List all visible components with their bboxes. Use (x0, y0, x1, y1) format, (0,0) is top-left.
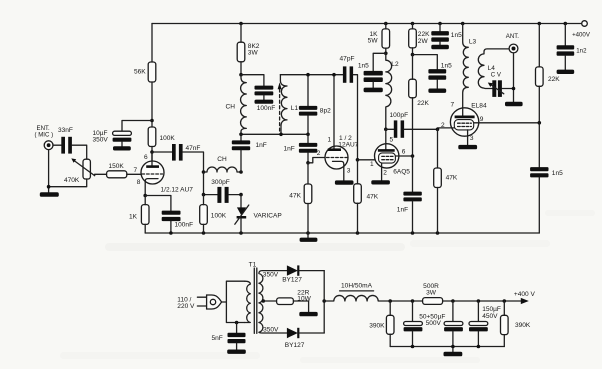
resistor 22K (screen dropper EL84) (536, 24, 561, 123)
resistor 500R 3W (423, 283, 505, 304)
node dots on ground rail (169, 231, 439, 235)
capacitor 100nF (cathode bypass) (162, 211, 193, 233)
wire tank top (280, 74, 343, 76)
node (8K2 bottom / HT osc feed) (239, 73, 243, 77)
wire rectifier output (323, 271, 325, 333)
node (CH right) (239, 170, 243, 174)
capacitor 47nF (V1 plate coupling) (152, 144, 204, 172)
svg-text:3: 3 (347, 168, 351, 175)
resistor 22K (screen lower) (409, 55, 430, 156)
svg-text:3W: 3W (426, 289, 437, 296)
capacitor CV (variable, with arrow) (488, 72, 514, 97)
wire plug to primary (222, 281, 245, 322)
node dots on top rail (239, 22, 567, 26)
resistor 22K 2W (screen feed) (409, 24, 430, 55)
svg-text:10W: 10W (297, 296, 311, 303)
resistor 47K (6AQ5 grid leak) (354, 160, 379, 233)
transformer T1 secondary 2x350V (259, 271, 287, 334)
svg-text:L3: L3 (469, 38, 477, 45)
wire ground rail (main) (145, 232, 539, 234)
svg-text:100K: 100K (160, 135, 176, 142)
ground (main rail) (300, 233, 318, 242)
inductor 10H/50mA (324, 283, 422, 301)
node (V2 grid) (306, 161, 310, 165)
svg-text:220 V: 220 V (177, 303, 195, 310)
ground (EL84 cathode) (458, 145, 477, 149)
svg-text:1n5: 1n5 (552, 170, 563, 177)
svg-text:100K: 100K (211, 212, 227, 219)
svg-text:100nF: 100nF (257, 105, 276, 112)
terminal +400V (top right) (572, 21, 591, 39)
svg-text:6: 6 (402, 148, 406, 155)
inductor CH (vertical choke) (226, 75, 247, 135)
transformer T1 core (249, 262, 257, 334)
node (tank bottom / CH) (239, 133, 243, 137)
node (6AQ5 screen pin 6) (411, 154, 415, 158)
svg-text:9: 9 (480, 116, 484, 123)
jack ENT. (MIC) (35, 125, 54, 150)
resistor 47K (V2 grid leak) (289, 163, 312, 233)
node (300pF right) (239, 193, 243, 197)
ground (V2 cathode) (335, 180, 354, 184)
svg-text:350V: 350V (93, 136, 109, 143)
svg-text:10H/50mA: 10H/50mA (341, 283, 373, 290)
svg-text:1nF: 1nF (284, 145, 295, 152)
svg-text:100nF: 100nF (175, 222, 194, 229)
potentiometer 470K (64, 158, 95, 184)
wire tank bottom (241, 133, 308, 135)
resistor 100K (varicap bias) (200, 195, 227, 233)
capacitor 1nF (grid) (284, 134, 318, 163)
capacitor 1n2 (HT decoupling) (557, 24, 587, 70)
capacitor 50uF B (444, 301, 463, 352)
svg-text:100pF: 100pF (390, 112, 409, 119)
node (EL84 grid / 100pF) (436, 128, 440, 132)
wire pot bottom to jack ground (49, 150, 87, 193)
svg-text:6AQ5: 6AQ5 (393, 169, 410, 176)
wire ANT stem (513, 53, 515, 102)
ground (centre tap) (299, 312, 317, 316)
node (screen divider) (411, 53, 415, 57)
terminal ANT. (506, 33, 520, 53)
capacitor 300pF (204, 172, 242, 203)
node (V2 plate / 47pF) (332, 73, 336, 77)
node (plate / 47nF) (150, 150, 154, 154)
capacitor 1n5 (HT rail decoupling) (431, 24, 462, 45)
ground (under 10uF) (113, 146, 131, 150)
ground (ANT / CV) (505, 102, 523, 107)
node (secondary centre tap) (262, 299, 266, 303)
capacitor 1nF (screen bypass) (397, 156, 422, 233)
svg-text:22K: 22K (548, 76, 560, 83)
svg-text:350V: 350V (263, 271, 279, 278)
resistor 390K (bleeder right) (501, 301, 531, 347)
capacitor 100pF (386, 112, 438, 138)
svg-text:BY127: BY127 (282, 277, 302, 284)
node (CV / ANT) (512, 87, 516, 91)
ground (5nF) (227, 350, 246, 354)
svg-text:C V: C V (491, 72, 502, 79)
svg-text:33nF: 33nF (58, 127, 73, 134)
svg-text:L2: L2 (391, 61, 399, 68)
capacitor 1n5 (screen node decoupling) (413, 55, 453, 89)
wire left drop from rail (151, 24, 153, 63)
svg-text:+400 V: +400 V (514, 291, 536, 298)
svg-text:47K: 47K (367, 193, 379, 200)
svg-text:1: 1 (328, 137, 332, 144)
svg-text:1n5: 1n5 (451, 32, 462, 39)
node (8p2 bottom) (306, 133, 310, 137)
node (300pF left) (202, 193, 206, 197)
svg-text:( MIC ): ( MIC ) (35, 132, 54, 139)
svg-text:CH: CH (217, 156, 227, 163)
wire grid node to V2 (308, 158, 325, 163)
node dots PSU bottom (411, 345, 481, 349)
inductor L4 (antenna coupling) (478, 49, 509, 89)
svg-text:5nF: 5nF (212, 335, 223, 342)
diode BY127 (upper) (282, 265, 324, 283)
capacitor 50uF A (50+50uF 500V) (404, 301, 446, 347)
node (390K top) (503, 299, 507, 303)
wire EL84 screen pin 9 (474, 122, 539, 124)
svg-text:12AU7: 12AU7 (338, 142, 358, 149)
svg-text:47K: 47K (446, 174, 458, 181)
ground (screen 1n5) (428, 89, 446, 93)
svg-text:8p2: 8p2 (320, 107, 331, 114)
node (8p2 top) (306, 73, 310, 77)
svg-text:CH: CH (226, 103, 236, 110)
svg-text:470K: 470K (64, 177, 80, 184)
wire to 10uF (122, 121, 152, 132)
node (cap C top) (477, 299, 481, 303)
svg-text:8: 8 (137, 179, 141, 186)
pentode EL84 (441, 102, 487, 145)
svg-text:ANT.: ANT. (506, 33, 520, 40)
inductor L2 (386, 53, 399, 129)
node (cap B top) (451, 299, 455, 303)
node (pin 9 / 22K) (538, 121, 542, 125)
wire cathode node to 100nF (145, 196, 171, 211)
resistor 22R 10W (277, 289, 312, 312)
node (CH left) (202, 170, 206, 174)
resistor 1K (V1 cathode) (129, 196, 149, 234)
svg-text:1n2: 1n2 (576, 47, 587, 54)
svg-text:2W: 2W (418, 38, 429, 45)
svg-text:2: 2 (317, 150, 321, 157)
svg-text:47pF: 47pF (340, 56, 355, 63)
node (rectifier output) (322, 299, 326, 303)
wire to 6AQ5 pin 1 (358, 159, 377, 161)
capacitor 100nF (osc HT decoupling) (241, 75, 275, 112)
svg-text:390K: 390K (515, 322, 531, 329)
wire 56K to node (151, 82, 153, 127)
svg-text:2: 2 (383, 170, 387, 177)
resistor 390K (bleeder left) (369, 301, 394, 347)
svg-text:47nF: 47nF (186, 145, 201, 152)
node (cathode V1) (143, 194, 147, 198)
capacitor 10uF 350V (electrolytic) (93, 130, 132, 146)
inductor L1 (tuned, with arrow) (278, 75, 299, 135)
node (6AQ5 grid) (356, 158, 360, 162)
svg-text:3: 3 (470, 135, 474, 142)
svg-text:500V: 500V (426, 320, 442, 327)
svg-text:VARICAP: VARICAP (254, 212, 283, 219)
wire tap to 22R (263, 300, 276, 302)
capacitor 5nF (212, 323, 246, 350)
capacitor 1nF (varicap link) (232, 134, 267, 172)
resistor 100K (V1 plate load) (148, 127, 175, 147)
ground (1n2) (557, 70, 575, 74)
svg-text:1: 1 (370, 161, 374, 168)
diode VARICAP (235, 195, 283, 233)
resistor 56K (134, 62, 156, 82)
wire PSU bottom rail (390, 346, 504, 348)
triode V2 1/2 12AU7 (oscillator) (317, 75, 359, 181)
svg-text:5W: 5W (368, 37, 379, 44)
svg-text:5: 5 (390, 136, 394, 143)
svg-text:300pF: 300pF (211, 179, 230, 186)
svg-text:47K: 47K (289, 193, 301, 200)
capacitor 33nF (58, 127, 73, 154)
svg-text:1n5: 1n5 (358, 62, 369, 69)
node (cap A top) (411, 299, 415, 303)
svg-text:1n5: 1n5 (441, 63, 452, 70)
wire 150K to grid pin 7 (127, 173, 142, 175)
(scan background tint) (60, 210, 595, 363)
svg-text:1K: 1K (129, 213, 138, 220)
node (choke output) (388, 299, 392, 303)
node (L1 bottom) (279, 133, 283, 137)
resistor 1K 5W (368, 24, 390, 54)
resistor 8K2 3W (237, 24, 260, 75)
wire 100K to plate node (151, 147, 153, 166)
svg-text:+400V: +400V (572, 31, 591, 38)
wire +400V output arrow (504, 291, 535, 304)
resistor 47K (EL84 grid leak) (434, 129, 458, 233)
wire EL84 grid pin 2 (438, 127, 455, 129)
ground (PSU) (444, 352, 463, 357)
svg-text:BY127: BY127 (285, 342, 305, 349)
ground (6AQ5 cathode) (371, 180, 390, 184)
plug 110/220V (177, 295, 221, 310)
capacitor 1n5 (L2 top decoupling) (358, 53, 386, 87)
svg-text:1nF: 1nF (397, 206, 408, 213)
wire jack to 33nF (53, 144, 61, 146)
svg-text:390K: 390K (369, 323, 385, 330)
wire HT top rail (152, 23, 582, 25)
svg-text:22K: 22K (417, 100, 429, 107)
svg-text:EL84: EL84 (471, 103, 487, 110)
capacitor 47pF (340, 56, 358, 160)
svg-text:350V: 350V (263, 327, 279, 334)
ground (100nF) (255, 100, 274, 104)
svg-text:7: 7 (134, 167, 138, 174)
transformer T1 primary (245, 281, 251, 322)
svg-text:6: 6 (144, 154, 148, 161)
inductor L3 (463, 24, 477, 110)
node (5nF tap) (235, 321, 239, 325)
diode BY127 (lower) (285, 328, 324, 349)
wire 33nF to pot (72, 145, 87, 159)
capacitor 1n5 (screen bypass EL84) (530, 123, 563, 233)
node (56K / 10uF feed) (150, 119, 154, 123)
svg-text:7: 7 (451, 102, 455, 109)
svg-text:150K: 150K (109, 163, 125, 170)
ground (rail 1n5) (431, 45, 449, 49)
ground (mic) (40, 192, 59, 197)
node (L2 top) (384, 52, 388, 56)
node (mic ground) (47, 185, 51, 189)
triode V1 1/2 12AU7 (134, 152, 194, 196)
svg-text:450V: 450V (482, 313, 498, 320)
resistor 150K (107, 163, 127, 178)
svg-text:1nF: 1nF (256, 142, 267, 149)
svg-text:T1: T1 (249, 262, 257, 269)
svg-text:56K: 56K (134, 69, 146, 76)
svg-text:3W: 3W (248, 50, 259, 57)
ground (1n5) (364, 88, 383, 93)
svg-text:L1: L1 (291, 105, 299, 112)
pentode 6AQ5 (370, 129, 413, 180)
wire wiper to 150K (95, 174, 107, 175)
node (L2 bottom / 6AQ5 plate) (384, 128, 388, 132)
inductor CH (horizontal choke) (204, 156, 242, 172)
capacitor 8p2 (299, 75, 331, 135)
svg-text:1/2.12 AU7: 1/2.12 AU7 (161, 186, 194, 193)
capacitor 150uF 450V (469, 301, 501, 347)
